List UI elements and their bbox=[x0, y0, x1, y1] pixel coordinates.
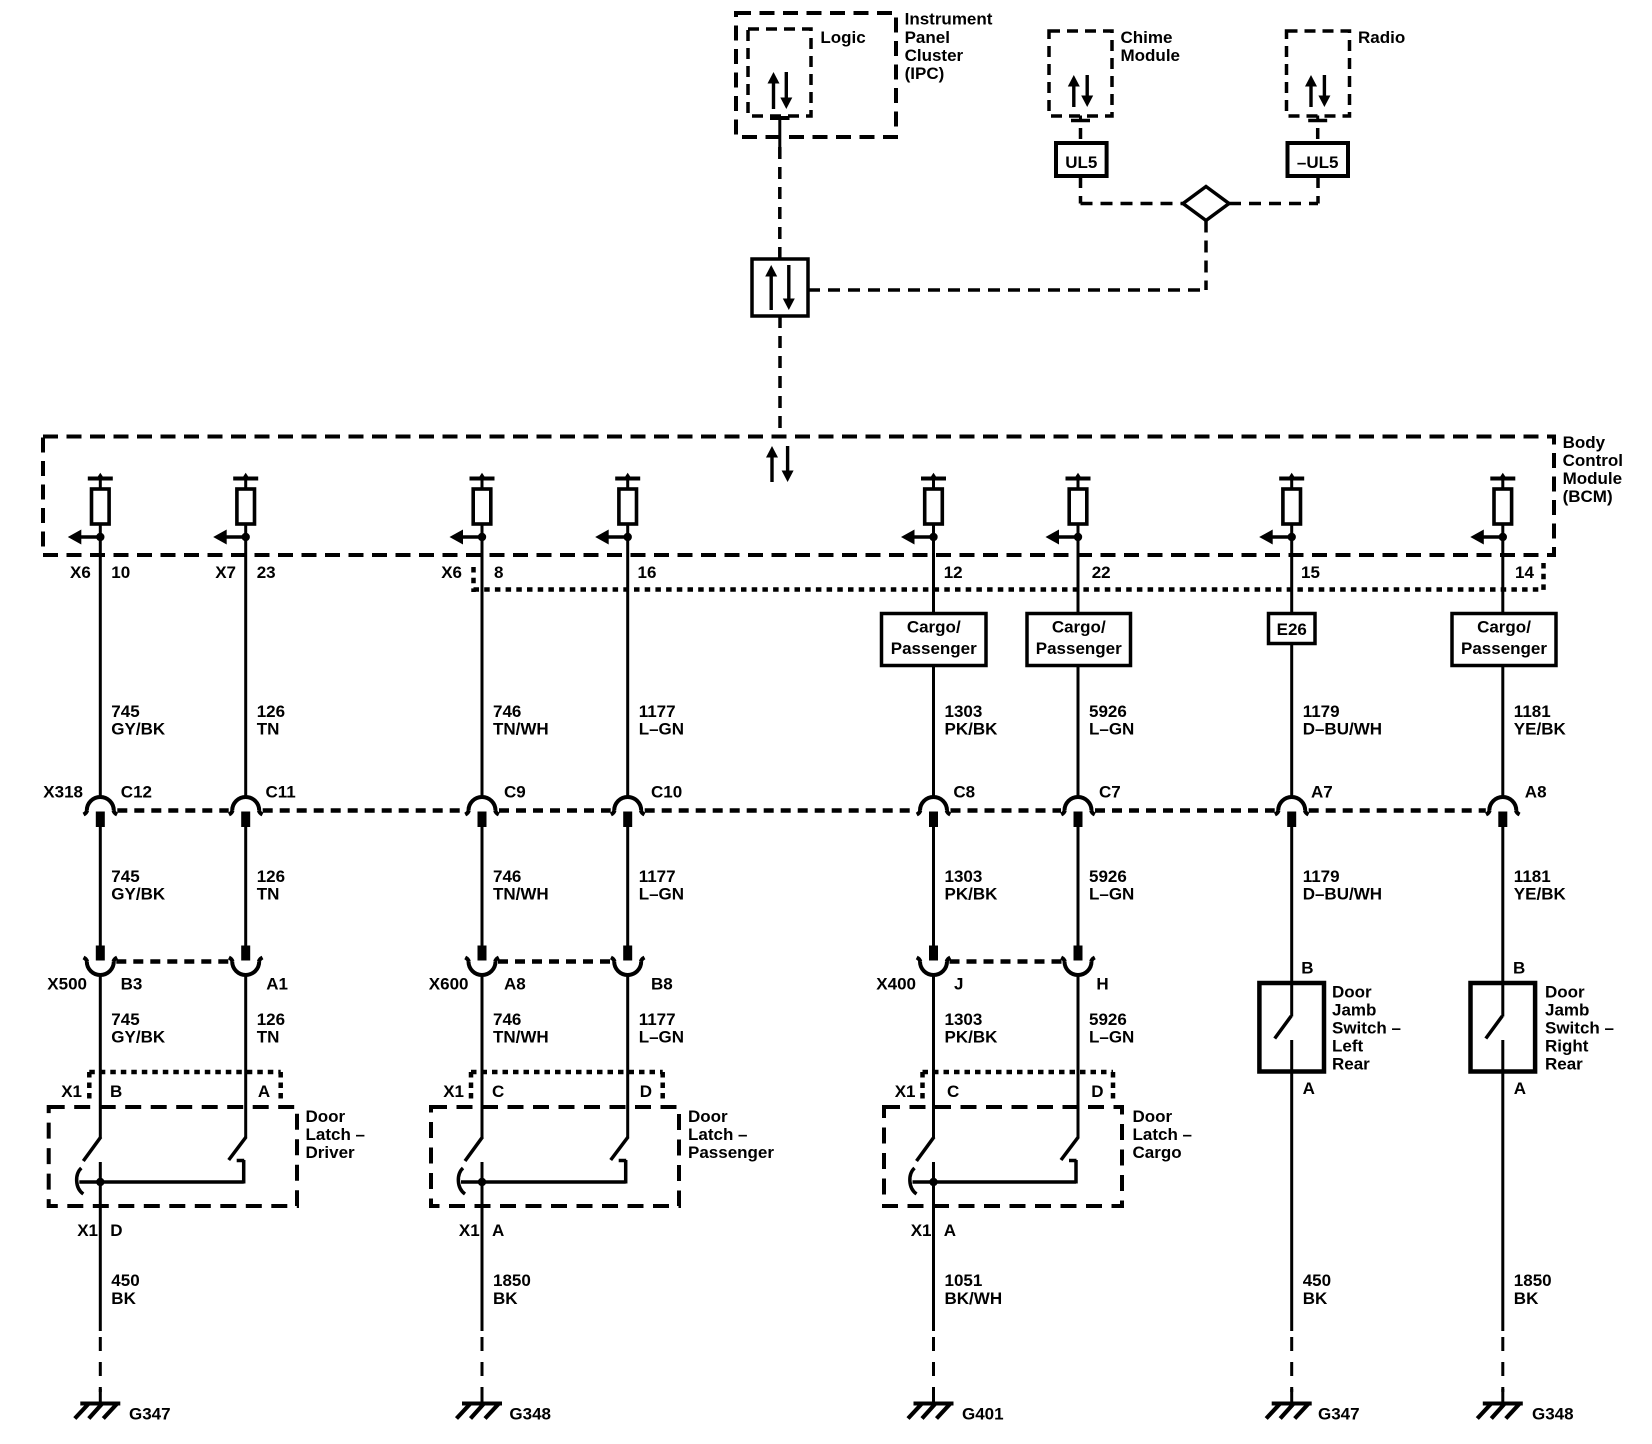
svg-text:X1: X1 bbox=[77, 1221, 98, 1240]
svg-text:PK/BK: PK/BK bbox=[945, 720, 999, 739]
svg-text:C8: C8 bbox=[953, 783, 975, 802]
svg-text:5926: 5926 bbox=[1089, 867, 1127, 886]
BCM output pin 10 (wire 1) bbox=[68, 473, 113, 556]
svg-text:B: B bbox=[1513, 959, 1525, 978]
svg-text:X6: X6 bbox=[441, 563, 462, 582]
switch blade right (Driver latch) bbox=[229, 1137, 246, 1160]
label Door Latch - Passenger bbox=[688, 1107, 774, 1162]
svg-text:Left: Left bbox=[1332, 1037, 1364, 1056]
svg-text:23: 23 bbox=[257, 563, 276, 582]
connector X318 pin A7 bbox=[1275, 797, 1309, 827]
svg-text:Driver: Driver bbox=[306, 1143, 356, 1162]
wire dashed above ground (G347) bbox=[99, 1337, 102, 1392]
wire 1850 BK to ground bbox=[1501, 1072, 1504, 1332]
wire 746 TN/WH segment 2 bbox=[481, 827, 484, 946]
connector X318 pin C7 bbox=[1061, 797, 1095, 827]
wire 1179 D&#8211;BU/WH segment 1 bbox=[1290, 644, 1293, 799]
label 1303 PK/BK (seg 3) bbox=[945, 1010, 999, 1047]
svg-text:Door: Door bbox=[1133, 1107, 1173, 1126]
wire 126 TN segment 2 bbox=[244, 827, 247, 946]
connector X318 pin A8 bbox=[1486, 797, 1520, 827]
svg-text:Latch –: Latch – bbox=[1133, 1125, 1193, 1144]
svg-text:Module: Module bbox=[1121, 46, 1181, 65]
label 1177 L&#8211;GN (seg 3) bbox=[639, 1010, 684, 1047]
connector X600 pin labels bbox=[504, 975, 673, 994]
connector X318 pin C8 bbox=[917, 797, 951, 827]
svg-text:PK/BK: PK/BK bbox=[945, 1028, 999, 1047]
svg-text:Latch –: Latch – bbox=[688, 1125, 748, 1144]
switch wire stub (jamb Right) bbox=[1501, 983, 1504, 1017]
BCM output pin 16 (wire 4) bbox=[595, 473, 640, 556]
connector X500 dashed line bbox=[116, 959, 229, 964]
label X400 bbox=[876, 975, 916, 994]
connector X318 pin C12 bbox=[84, 797, 118, 827]
switch contact hook (Passenger latch) bbox=[458, 1168, 465, 1194]
svg-text:Door: Door bbox=[688, 1107, 728, 1126]
svg-text:14: 14 bbox=[1515, 563, 1534, 582]
svg-text:126: 126 bbox=[257, 867, 285, 886]
function box Cargo/Passenger (wire 22) bbox=[1027, 614, 1131, 666]
svg-text:Passenger: Passenger bbox=[891, 639, 977, 658]
label X318 bbox=[43, 783, 83, 802]
wire 1179 D&#8211;BU/WH segment 2 bbox=[1290, 827, 1293, 983]
label pin B (jamb Left) bbox=[1301, 959, 1313, 978]
serial data arrows U1 (IPC logic) bbox=[768, 72, 793, 109]
svg-text:PK/BK: PK/BK bbox=[945, 885, 999, 904]
svg-text:8: 8 bbox=[494, 563, 503, 582]
switch blade left (Cargo latch) bbox=[917, 1137, 935, 1161]
connector X318 pin labels bbox=[121, 783, 1547, 802]
connector X318 pin C9 bbox=[465, 797, 499, 827]
svg-text:Cargo/: Cargo/ bbox=[1052, 618, 1106, 637]
svg-text:L–GN: L–GN bbox=[1089, 885, 1134, 904]
svg-text:X1: X1 bbox=[61, 1082, 82, 1101]
svg-text:450: 450 bbox=[111, 1271, 139, 1290]
door latch Driver dashed box bbox=[49, 1107, 297, 1206]
wire 5 BCM to cargo box bbox=[932, 556, 935, 614]
switch blade (jamb Right) bbox=[1486, 1016, 1503, 1039]
connector X400 pin J bbox=[917, 946, 951, 976]
wire splice diamond to -UL5 (dashed) bbox=[1229, 202, 1318, 206]
svg-text:A7: A7 bbox=[1311, 783, 1333, 802]
module Body Control Module (BCM) dashed box bbox=[43, 437, 1554, 556]
label X1 pins top (Passenger latch) bbox=[443, 1082, 652, 1101]
svg-text:5926: 5926 bbox=[1089, 1010, 1127, 1029]
module Instrument Panel Cluster (IPC) dashed box bbox=[736, 13, 896, 137]
wire 450 BK to ground bbox=[1290, 1072, 1293, 1332]
wire gateway to BCM (dashed) bbox=[778, 316, 782, 437]
svg-text:Body: Body bbox=[1563, 433, 1606, 452]
svg-text:G347: G347 bbox=[129, 1405, 171, 1424]
label 746 TN/WH (seg 1) bbox=[493, 702, 549, 739]
ground G347 bbox=[75, 1389, 121, 1419]
switch lower contact (jamb Right) bbox=[1501, 1040, 1504, 1072]
svg-text:GY/BK: GY/BK bbox=[111, 720, 166, 739]
label G348 bbox=[1532, 1405, 1574, 1424]
svg-text:D–BU/WH: D–BU/WH bbox=[1303, 720, 1382, 739]
pin bar below logic bbox=[770, 118, 790, 147]
svg-text:TN/WH: TN/WH bbox=[493, 885, 549, 904]
svg-text:1177: 1177 bbox=[639, 1010, 676, 1029]
label 1181 YE/BK (seg 2) bbox=[1514, 867, 1567, 904]
label 450 BK (bottom) bbox=[1303, 1271, 1331, 1308]
serial data gateway box bbox=[752, 259, 808, 316]
label 1181 YE/BK (seg 1) bbox=[1514, 702, 1567, 739]
svg-text:Control: Control bbox=[1563, 451, 1623, 470]
svg-text:C11: C11 bbox=[266, 783, 296, 802]
svg-text:(IPC): (IPC) bbox=[905, 64, 945, 83]
label G347 bbox=[1318, 1405, 1360, 1424]
label 1179 D&#8211;BU/WH (seg 1) bbox=[1303, 702, 1382, 739]
switch blade left (Driver latch) bbox=[83, 1137, 101, 1161]
svg-text:A: A bbox=[1514, 1079, 1526, 1098]
svg-text:1179: 1179 bbox=[1303, 702, 1340, 721]
svg-text:Panel: Panel bbox=[905, 28, 950, 47]
connector UL5 box bbox=[1056, 143, 1107, 176]
serial data arrows (chime) bbox=[1068, 75, 1093, 107]
svg-text:TN: TN bbox=[257, 720, 280, 739]
svg-text:X1: X1 bbox=[895, 1082, 916, 1101]
wire 5926 L&#8211;GN segment 3 bbox=[1077, 974, 1080, 1138]
svg-text:L–GN: L–GN bbox=[639, 720, 684, 739]
svg-text:1850: 1850 bbox=[493, 1271, 531, 1290]
junction dot (Driver latch) bbox=[96, 1178, 104, 1186]
svg-text:BK: BK bbox=[1514, 1289, 1539, 1308]
door latch Cargo dashed box bbox=[884, 1107, 1122, 1206]
svg-text:Door: Door bbox=[1545, 983, 1585, 1002]
door jamb switch Left rear box bbox=[1259, 983, 1324, 1072]
wire 126 TN segment 3 bbox=[244, 974, 247, 1138]
svg-text:–UL5: –UL5 bbox=[1297, 153, 1339, 172]
label G401 bbox=[962, 1405, 1004, 1424]
label 745 GY/BK (seg 2) bbox=[111, 867, 166, 904]
label BCM bbox=[1563, 433, 1623, 506]
label 126 TN (seg 1) bbox=[257, 702, 285, 739]
svg-text:1303: 1303 bbox=[945, 702, 983, 721]
svg-text:A8: A8 bbox=[504, 975, 526, 994]
svg-text:X318: X318 bbox=[43, 783, 83, 802]
module Radio dashed box bbox=[1287, 31, 1350, 116]
wire dashed above ground (G348) bbox=[1501, 1337, 1504, 1392]
wire 1177 L&#8211;GN segment 2 bbox=[626, 827, 629, 946]
svg-text:X500: X500 bbox=[47, 975, 87, 994]
switch contact hook (Cargo latch) bbox=[910, 1168, 917, 1194]
svg-text:C: C bbox=[947, 1082, 959, 1101]
svg-text:Cargo/: Cargo/ bbox=[907, 618, 961, 637]
svg-text:Cargo/: Cargo/ bbox=[1477, 618, 1531, 637]
switch common bus (Passenger latch) bbox=[461, 1180, 626, 1184]
connector X600 dashed line bbox=[498, 959, 612, 964]
switch lower contact (jamb Left) bbox=[1290, 1040, 1293, 1072]
svg-text:TN/WH: TN/WH bbox=[493, 720, 549, 739]
label X600 bbox=[429, 975, 469, 994]
svg-text:1177: 1177 bbox=[639, 867, 676, 886]
label 450 BK (bottom) bbox=[111, 1271, 139, 1308]
svg-text:C9: C9 bbox=[504, 783, 526, 802]
wire 746 TN/WH segment 1 bbox=[481, 556, 484, 798]
connector X500 pin labels bbox=[121, 975, 288, 994]
ground G348 bbox=[457, 1389, 503, 1419]
label 1850 BK (bottom) bbox=[493, 1271, 531, 1308]
svg-text:Logic: Logic bbox=[820, 28, 865, 47]
svg-text:Passenger: Passenger bbox=[1461, 639, 1547, 658]
label 1177 L&#8211;GN (seg 2) bbox=[639, 867, 684, 904]
svg-text:745: 745 bbox=[111, 1010, 139, 1029]
svg-text:TN/WH: TN/WH bbox=[493, 1028, 549, 1047]
svg-text:Rear: Rear bbox=[1332, 1055, 1370, 1074]
svg-text:D: D bbox=[110, 1221, 122, 1240]
svg-text:22: 22 bbox=[1092, 563, 1111, 582]
connector X500 pin A1 bbox=[229, 946, 263, 976]
switch contact hook (Driver latch) bbox=[77, 1168, 84, 1194]
label 1303 PK/BK (seg 1) bbox=[945, 702, 999, 739]
label Door Jamb Switch - Left Rear bbox=[1332, 983, 1401, 1074]
svg-text:745: 745 bbox=[111, 867, 139, 886]
serial data arrows (BCM) bbox=[766, 446, 794, 482]
svg-text:J: J bbox=[954, 975, 963, 994]
wire diamond down (dashed) bbox=[1204, 221, 1208, 291]
svg-text:Rear: Rear bbox=[1545, 1055, 1583, 1074]
connector X6 dotted bracket bbox=[474, 563, 1544, 592]
wire IPC to gateway (dashed) bbox=[778, 147, 782, 259]
connector X318 pin C10 bbox=[611, 797, 645, 827]
function box E26 bbox=[1269, 614, 1316, 644]
svg-text:L–GN: L–GN bbox=[639, 885, 684, 904]
svg-text:X6: X6 bbox=[70, 563, 91, 582]
svg-text:Module: Module bbox=[1563, 469, 1623, 488]
label 1303 PK/BK (seg 2) bbox=[945, 867, 999, 904]
function box Cargo/Passenger (wire 12) bbox=[882, 614, 987, 666]
wire dashed above ground (G348) bbox=[481, 1337, 484, 1392]
svg-text:746: 746 bbox=[493, 1010, 521, 1029]
label Chime Module bbox=[1121, 28, 1181, 65]
label 126 TN (seg 2) bbox=[257, 867, 285, 904]
svg-text:GY/BK: GY/BK bbox=[111, 1028, 166, 1047]
wire 8 BCM to cargo box bbox=[1501, 556, 1504, 614]
wire 1303 PK/BK segment 3 bbox=[932, 974, 935, 1138]
wire 745 GY/BK segment 1 bbox=[99, 556, 102, 798]
label 1850 BK (bottom) bbox=[1514, 1271, 1552, 1308]
svg-text:Door: Door bbox=[1332, 983, 1372, 1002]
connector X1 dotted bracket (Cargo latch) bbox=[923, 1072, 1114, 1099]
wire 6 BCM to cargo box bbox=[1077, 556, 1080, 614]
svg-text:1303: 1303 bbox=[945, 1010, 983, 1029]
switch contact right (Cargo latch) bbox=[1069, 1160, 1077, 1184]
label G347 bbox=[129, 1405, 171, 1424]
switch contact right (Passenger latch) bbox=[619, 1160, 627, 1184]
svg-text:D–BU/WH: D–BU/WH bbox=[1303, 885, 1382, 904]
BCM output pin 14 (wire 8) bbox=[1470, 473, 1515, 556]
junction dot (Passenger latch) bbox=[478, 1178, 486, 1186]
connector X500 pin B3 bbox=[84, 946, 118, 976]
svg-text:X1: X1 bbox=[459, 1221, 480, 1240]
module Chime Module dashed box bbox=[1049, 31, 1112, 116]
svg-text:L–GN: L–GN bbox=[639, 1028, 684, 1047]
svg-text:G401: G401 bbox=[962, 1405, 1004, 1424]
label 5926 L&#8211;GN (seg 2) bbox=[1089, 867, 1134, 904]
svg-text:X400: X400 bbox=[876, 975, 916, 994]
label 745 GY/BK (seg 3) bbox=[111, 1010, 166, 1047]
label 5926 L&#8211;GN (seg 3) bbox=[1089, 1010, 1134, 1047]
wire output (Cargo latch) bbox=[932, 1162, 935, 1331]
svg-text:BK: BK bbox=[1303, 1289, 1328, 1308]
pin bar below radio bbox=[1308, 116, 1327, 140]
svg-text:Chime: Chime bbox=[1121, 28, 1173, 47]
wire 1303 PK/BK segment 2 bbox=[932, 827, 935, 946]
connector X1 dotted bracket (Passenger latch) bbox=[471, 1072, 663, 1099]
svg-text:1181: 1181 bbox=[1514, 702, 1551, 721]
svg-text:C12: C12 bbox=[121, 783, 152, 802]
label X1 pins top (Driver latch) bbox=[61, 1082, 270, 1101]
label 746 TN/WH (seg 3) bbox=[493, 1010, 549, 1047]
door latch Passenger dashed box bbox=[431, 1107, 679, 1206]
svg-text:Switch –: Switch – bbox=[1545, 1019, 1614, 1038]
svg-text:G348: G348 bbox=[1532, 1405, 1574, 1424]
svg-text:A: A bbox=[944, 1221, 956, 1240]
label pin A (jamb Right) bbox=[1514, 1079, 1526, 1098]
connector X1 dotted bracket (Driver latch) bbox=[89, 1072, 280, 1099]
svg-text:15: 15 bbox=[1301, 563, 1320, 582]
label 1177 L&#8211;GN (seg 1) bbox=[639, 702, 684, 739]
BCM pin number labels bbox=[70, 563, 1534, 582]
label Logic bbox=[820, 28, 865, 47]
svg-text:1850: 1850 bbox=[1514, 1271, 1552, 1290]
pin bar below chime bbox=[1071, 116, 1090, 140]
wire output (Passenger latch) bbox=[481, 1162, 484, 1331]
svg-text:GY/BK: GY/BK bbox=[111, 885, 166, 904]
wire -UL5 down (dashed) bbox=[1316, 176, 1320, 204]
ground G347 bbox=[1266, 1389, 1312, 1419]
svg-text:TN: TN bbox=[257, 1028, 280, 1047]
svg-text:16: 16 bbox=[638, 563, 657, 582]
label 745 GY/BK (seg 1) bbox=[111, 702, 166, 739]
ground G401 bbox=[908, 1389, 954, 1419]
svg-text:1179: 1179 bbox=[1303, 867, 1340, 886]
wire output (Driver latch) bbox=[99, 1162, 102, 1331]
svg-text:A8: A8 bbox=[1525, 783, 1547, 802]
svg-text:Cargo: Cargo bbox=[1133, 1143, 1182, 1162]
switch blade (jamb Left) bbox=[1275, 1016, 1292, 1039]
svg-text:1303: 1303 bbox=[945, 867, 983, 886]
connector X400 dashed line bbox=[950, 959, 1063, 964]
wire 745 GY/BK segment 2 bbox=[99, 827, 102, 946]
svg-text:Jamb: Jamb bbox=[1545, 1001, 1589, 1020]
svg-text:X1: X1 bbox=[911, 1221, 932, 1240]
label Door Jamb Switch - Right Rear bbox=[1545, 983, 1614, 1074]
svg-text:126: 126 bbox=[257, 702, 285, 721]
svg-text:A: A bbox=[492, 1221, 504, 1240]
svg-text:A: A bbox=[258, 1082, 270, 1101]
BCM output pin 22 (wire 6) bbox=[1046, 473, 1091, 556]
svg-text:C10: C10 bbox=[651, 783, 682, 802]
svg-text:E26: E26 bbox=[1277, 620, 1307, 639]
svg-text:UL5: UL5 bbox=[1065, 153, 1097, 172]
BCM output pin 8 (wire 3) bbox=[450, 473, 495, 556]
svg-text:X600: X600 bbox=[429, 975, 469, 994]
svg-text:YE/BK: YE/BK bbox=[1514, 720, 1567, 739]
svg-text:G348: G348 bbox=[509, 1405, 551, 1424]
svg-text:12: 12 bbox=[944, 563, 963, 582]
svg-text:G347: G347 bbox=[1318, 1405, 1360, 1424]
ground G348 bbox=[1477, 1389, 1523, 1419]
svg-text:TN: TN bbox=[257, 885, 280, 904]
svg-text:L–GN: L–GN bbox=[1089, 720, 1134, 739]
label Door Latch - Cargo bbox=[1133, 1107, 1193, 1162]
wire dashed above ground (G401) bbox=[932, 1337, 935, 1392]
label Radio bbox=[1358, 28, 1405, 47]
svg-text:D: D bbox=[1091, 1082, 1103, 1101]
svg-text:10: 10 bbox=[111, 563, 130, 582]
label X1 pins top (Cargo latch) bbox=[895, 1082, 1104, 1101]
svg-text:B: B bbox=[110, 1082, 122, 1101]
connector X600 pin A8 bbox=[465, 946, 499, 976]
svg-text:B8: B8 bbox=[651, 975, 673, 994]
svg-text:745: 745 bbox=[111, 702, 139, 721]
wire 5926 L&#8211;GN segment 2 bbox=[1077, 827, 1080, 946]
svg-text:Cluster: Cluster bbox=[905, 46, 964, 65]
svg-text:Passenger: Passenger bbox=[688, 1143, 774, 1162]
connector X400 pin H bbox=[1061, 946, 1095, 976]
wire 1177 L&#8211;GN segment 3 bbox=[626, 974, 629, 1138]
svg-text:450: 450 bbox=[1303, 1271, 1331, 1290]
connector -UL5 box bbox=[1288, 143, 1349, 176]
wire diamond leg to gateway (dashed) bbox=[808, 288, 1206, 292]
label X500 bbox=[47, 975, 87, 994]
wire UL5 to splice diamond (dashed) bbox=[1081, 202, 1184, 206]
junction dot (Cargo latch) bbox=[929, 1178, 937, 1186]
label 1051 BK/WH (bottom) bbox=[945, 1271, 1003, 1308]
svg-text:Radio: Radio bbox=[1358, 28, 1405, 47]
label 126 TN (seg 3) bbox=[257, 1010, 285, 1047]
label X1 pin bottom (Passenger latch) bbox=[459, 1221, 504, 1240]
wire 1303 PK/BK segment 1 bbox=[932, 666, 935, 799]
svg-text:746: 746 bbox=[493, 702, 521, 721]
svg-text:YE/BK: YE/BK bbox=[1514, 885, 1567, 904]
svg-text:5926: 5926 bbox=[1089, 702, 1127, 721]
svg-text:Instrument: Instrument bbox=[905, 10, 993, 29]
wire 745 GY/BK segment 3 bbox=[99, 974, 102, 1138]
svg-text:H: H bbox=[1096, 975, 1108, 994]
svg-text:X1: X1 bbox=[443, 1082, 464, 1101]
label pin B (jamb Right) bbox=[1513, 959, 1525, 978]
label X1 pin bottom (Cargo latch) bbox=[911, 1221, 956, 1240]
connector X400 pin labels bbox=[954, 975, 1109, 994]
door jamb switch Right rear box bbox=[1471, 983, 1536, 1072]
splice diamond bbox=[1183, 187, 1229, 221]
BCM output pin 23 (wire 2) bbox=[213, 473, 258, 556]
switch contact right (Driver latch) bbox=[237, 1160, 245, 1184]
svg-text:BK: BK bbox=[111, 1289, 136, 1308]
wire 1177 L&#8211;GN segment 1 bbox=[626, 556, 629, 798]
serial data arrows (gateway) bbox=[765, 265, 795, 310]
svg-text:D: D bbox=[640, 1082, 652, 1101]
label X1 pin bottom (Driver latch) bbox=[77, 1221, 122, 1240]
wire dashed above ground (G347) bbox=[1290, 1337, 1293, 1392]
svg-text:Door: Door bbox=[306, 1107, 346, 1126]
wire 1181 YE/BK segment 1 bbox=[1501, 666, 1504, 799]
svg-text:126: 126 bbox=[257, 1010, 285, 1029]
wire 1181 YE/BK segment 2 bbox=[1501, 827, 1504, 983]
connector X600 pin B8 bbox=[611, 946, 645, 976]
switch common bus (Driver latch) bbox=[79, 1180, 243, 1184]
label Door Latch - Driver bbox=[306, 1107, 366, 1162]
svg-text:Switch –: Switch – bbox=[1332, 1019, 1401, 1038]
svg-text:1051: 1051 bbox=[945, 1271, 983, 1290]
wire 746 TN/WH segment 3 bbox=[481, 974, 484, 1138]
svg-text:B3: B3 bbox=[121, 975, 143, 994]
svg-text:1177: 1177 bbox=[639, 702, 676, 721]
switch blade right (Cargo latch) bbox=[1061, 1137, 1078, 1160]
